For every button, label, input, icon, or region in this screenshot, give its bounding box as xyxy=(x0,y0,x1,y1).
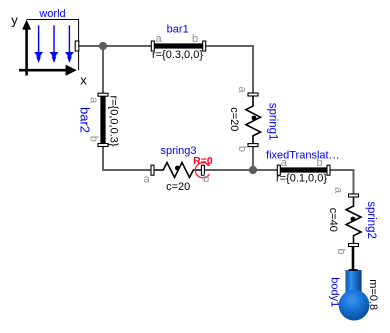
svg-text:bar2: bar2 xyxy=(78,107,93,133)
spring3 frame_b connector pin xyxy=(201,165,204,175)
svg-text:world: world xyxy=(38,8,65,20)
spring3 coil xyxy=(153,163,204,178)
wire bar1.frame_b to spring1.frame_a xyxy=(205,46,254,94)
bar2 frame_b connector pin xyxy=(98,144,108,147)
svg-text:spring3: spring3 xyxy=(160,145,196,157)
svg-text:c=20: c=20 xyxy=(228,107,240,131)
wire spring1.frame_b to node J2 xyxy=(252,146,254,170)
world y-axis shaft xyxy=(25,27,28,76)
svg-text:x: x xyxy=(80,73,87,88)
node J2 junction dot xyxy=(249,166,257,174)
body1 rod line xyxy=(352,247,355,271)
svg-text:r={0.1,0,0}: r={0.1,0,0} xyxy=(276,173,327,185)
svg-text:r={0,0,0.3}: r={0,0,0.3} xyxy=(108,95,120,146)
world gravity arrow 3 xyxy=(65,25,74,63)
svg-text:y: y xyxy=(11,13,18,28)
spring2 mid point dot xyxy=(351,217,356,222)
svg-text:r={0.3,0,0}: r={0.3,0,0} xyxy=(152,49,203,61)
world x-axis shaft xyxy=(19,69,67,72)
world x-axis arrowhead xyxy=(66,65,77,76)
bar1 body bar xyxy=(154,43,203,48)
wire spring3.frame_b to node J2 xyxy=(203,169,253,171)
svg-text:a: a xyxy=(155,33,162,45)
world gravity arrow 2 xyxy=(50,25,59,63)
svg-text:fixedTranslat…: fixedTranslat… xyxy=(266,149,340,161)
spring1 coil xyxy=(246,96,261,144)
fixedTranslation frame_a connector pin xyxy=(277,165,280,175)
spring3 frame_a connector pin xyxy=(151,165,154,175)
svg-text:b: b xyxy=(192,33,198,45)
body1 cylinder xyxy=(346,270,362,296)
svg-text:a: a xyxy=(332,187,344,194)
bar1 frame_a connector pin xyxy=(151,41,154,51)
bar2 fixedTranslation component (vertical) xyxy=(78,93,120,147)
spring3 mid point dot xyxy=(175,166,180,171)
fixedTranslation body bar xyxy=(280,167,327,172)
body1 mass component xyxy=(328,247,379,321)
svg-text:a: a xyxy=(87,97,99,104)
svg-text:bar1: bar1 xyxy=(167,24,189,36)
world y-axis arrowhead xyxy=(22,20,31,30)
body1 rod tick xyxy=(349,269,358,271)
svg-text:b: b xyxy=(87,136,99,142)
fixedTranslation component xyxy=(266,149,340,184)
spring1 component (vertical) xyxy=(228,86,278,152)
wire world.frame_b to node J1 xyxy=(79,45,103,47)
wire fixedTranslation.frame_b to spring2.frame_a xyxy=(329,170,354,195)
spring2 frame_a connector pin xyxy=(349,194,359,197)
spring1 frame_b connector pin xyxy=(248,144,258,147)
fixedTranslation frame_b connector pin xyxy=(327,165,330,175)
svg-text:m=0.8: m=0.8 xyxy=(367,279,379,310)
bar2 body bar xyxy=(100,96,105,144)
svg-text:c=40: c=40 xyxy=(327,208,339,232)
bar2 frame_a connector pin xyxy=(98,93,108,96)
node J1 junction dot xyxy=(99,42,107,50)
svg-text:body1: body1 xyxy=(328,277,340,307)
world gravity arrow 1 xyxy=(34,25,43,63)
body1 sphere xyxy=(339,290,370,321)
svg-text:b: b xyxy=(236,146,248,152)
spring2 frame_b connector pin xyxy=(349,244,359,247)
bar1 frame_b connector pin xyxy=(203,41,206,51)
spring3 R=0 red rotation circle xyxy=(195,163,209,178)
svg-text:spring2: spring2 xyxy=(365,201,377,239)
spring3 component (horizontal) xyxy=(144,145,213,193)
world icon frame box xyxy=(27,20,79,71)
svg-text:spring1: spring1 xyxy=(266,103,278,141)
world frame_b connector pin xyxy=(75,41,79,51)
world component U:world xyxy=(11,8,87,88)
svg-text:b: b xyxy=(335,248,347,254)
wire node J1 to bar1.frame_a xyxy=(103,45,152,47)
spring1 mid point dot xyxy=(252,116,257,121)
svg-text:a: a xyxy=(144,174,151,186)
svg-text:c=20: c=20 xyxy=(166,181,190,193)
wire bar2.frame_b to spring3.frame_a xyxy=(103,145,152,170)
svg-text:a: a xyxy=(236,86,248,93)
wire node J2 to fixedTranslation.frame_a xyxy=(253,169,278,171)
bar1 fixedTranslation component xyxy=(151,24,205,62)
svg-text:b: b xyxy=(203,173,209,185)
wire node J1 down to bar2.frame_a xyxy=(102,46,104,94)
spring2 coil xyxy=(346,197,361,244)
spring1 frame_a connector pin xyxy=(248,93,258,96)
spring2 component (vertical) xyxy=(327,187,377,255)
